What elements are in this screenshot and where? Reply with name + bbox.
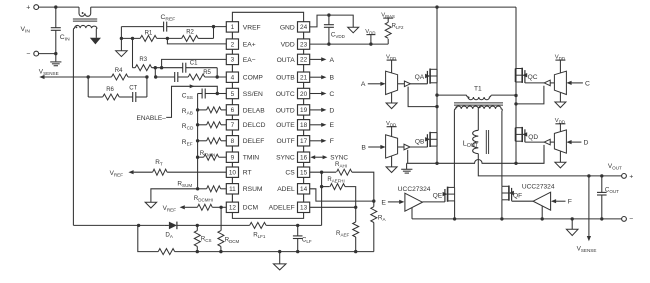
svg-text:D: D bbox=[329, 107, 334, 114]
junction COMP node bbox=[216, 75, 219, 78]
wire OUTB pin arrow bbox=[310, 76, 322, 78]
driver U3 UCC27324 triangle bbox=[533, 192, 551, 210]
svg-text:OUTC: OUTC bbox=[276, 91, 295, 98]
junction SS node bbox=[216, 92, 219, 95]
svg-text:DELCD: DELCD bbox=[243, 122, 266, 129]
wire GND pin24 to ground bbox=[310, 15, 354, 27]
current-sense transformer secondary bbox=[73, 25, 97, 37]
svg-text:F: F bbox=[568, 199, 572, 206]
IC pin box 16 bbox=[298, 152, 310, 162]
wire ENABLE to SS/EN bbox=[166, 86, 217, 117]
junction QE source rail bbox=[453, 217, 456, 220]
net VBIAS bar bbox=[383, 17, 393, 19]
svg-text:R5: R5 bbox=[203, 70, 211, 76]
wire C1 branch down to COMP node bbox=[216, 68, 218, 77]
transformer T1 core bbox=[454, 102, 503, 104]
current-sense transformer CT primary bbox=[79, 7, 91, 16]
svg-text:1: 1 bbox=[231, 24, 235, 31]
svg-text:OUTB: OUTB bbox=[276, 75, 295, 82]
junction RDCM bottom bbox=[219, 250, 222, 253]
transformer T1 primary bbox=[437, 94, 467, 96]
junction COUT top bbox=[600, 174, 603, 177]
svg-text:DELAB: DELAB bbox=[243, 107, 265, 114]
svg-text:C: C bbox=[329, 91, 334, 98]
IC stub pin3-pin4 bbox=[231, 65, 233, 72]
IC pin box 5 bbox=[226, 88, 238, 98]
wire OUTA pin arrow bbox=[310, 58, 322, 60]
svg-text:RT: RT bbox=[243, 170, 252, 177]
junction ADELEF node bbox=[354, 206, 357, 209]
junction T1 primary left bbox=[435, 93, 438, 96]
IC pin box 22 bbox=[298, 54, 310, 64]
svg-text:B: B bbox=[361, 144, 366, 151]
svg-text:T1: T1 bbox=[474, 86, 482, 93]
wire R2 riser bbox=[213, 27, 215, 39]
wire E to driver U2 bbox=[388, 201, 400, 203]
junction QD source bbox=[514, 162, 517, 165]
IC pin box 15 bbox=[298, 167, 310, 177]
wire SS row bbox=[205, 93, 217, 95]
svg-text:−: − bbox=[26, 51, 30, 58]
resistor RDCM bbox=[218, 231, 224, 247]
svg-text:VREF: VREF bbox=[243, 24, 261, 31]
svg-text:CS: CS bbox=[285, 170, 295, 177]
wire OUTD pin arrow bbox=[310, 109, 322, 111]
svg-text:OUTF: OUTF bbox=[276, 138, 294, 145]
junction driver U3 ground bbox=[541, 217, 544, 220]
wire DA row RCS to CS riser bbox=[197, 224, 249, 226]
junction CVDD top bbox=[327, 13, 330, 16]
wire CT branch up to VSENSE row bbox=[146, 77, 148, 97]
junction R6/CT branch riser bbox=[145, 75, 148, 78]
wire RAEFHI to ADELEF node bbox=[345, 187, 356, 208]
wire driver B to QB gate bbox=[410, 146, 427, 148]
svg-text:QF: QF bbox=[513, 193, 522, 200]
svg-text:6: 6 bbox=[231, 107, 235, 114]
IC pin box 19 bbox=[298, 105, 310, 115]
resistor RLF2 bbox=[387, 39, 389, 44]
svg-text:RSUM: RSUM bbox=[243, 186, 263, 193]
IC pin box 14 bbox=[298, 184, 310, 194]
svg-text:8: 8 bbox=[231, 138, 235, 145]
IC stub pin19-pin18 bbox=[303, 115, 305, 120]
IC stub pin22-pin21 bbox=[303, 65, 305, 72]
wire LOUT to Vout+ rail bbox=[478, 154, 621, 176]
svg-text:OUTD: OUTD bbox=[276, 107, 295, 114]
ground solid under CT secondary bbox=[91, 38, 100, 44]
ground under R1 divider bbox=[116, 51, 128, 57]
gate driver D VDD bbox=[559, 124, 561, 132]
IC pin box 21 bbox=[298, 72, 310, 82]
inductor LOUT bbox=[473, 130, 479, 153]
IC stub pin8-pin9 bbox=[231, 146, 233, 152]
svg-text:18: 18 bbox=[300, 122, 308, 129]
wire DCM node down to RDCM bbox=[220, 207, 222, 230]
svg-text:COMP: COMP bbox=[243, 75, 264, 82]
wire ADELEF pin13 row bbox=[310, 206, 356, 208]
svg-text:VDD: VDD bbox=[555, 118, 565, 125]
junction QA phase ref bbox=[435, 105, 438, 108]
IC stub pin23-pin22 bbox=[303, 49, 305, 54]
resistor REF pin8 bbox=[198, 140, 207, 142]
capacitor CREF bbox=[163, 22, 165, 32]
wire SYNC bidirectional arrow bbox=[314, 156, 325, 158]
driver U2 UCC27324 triangle bbox=[405, 193, 423, 211]
capacitor CT bbox=[132, 92, 134, 102]
wire OUTF pin arrow bbox=[310, 140, 322, 142]
wire CREF row to pin1 bbox=[121, 26, 163, 28]
gate driver A ground bbox=[391, 93, 393, 103]
svg-text:16: 16 bbox=[300, 155, 308, 162]
wire driver U3 to QF gate bbox=[512, 200, 533, 202]
wire DA row from CT bbox=[73, 224, 164, 226]
wire driver U2 to QE gate bbox=[422, 201, 445, 203]
junction R3/EA- riser bbox=[160, 66, 163, 69]
mosfet QE bbox=[444, 189, 446, 202]
resistor RT bbox=[153, 169, 167, 175]
svg-text:VDD: VDD bbox=[386, 121, 396, 128]
IC stub pin4-pin5 bbox=[231, 82, 233, 88]
input terminal - (Vin minus) bbox=[34, 51, 39, 56]
IC stub pin2-pin3 bbox=[231, 49, 233, 54]
IC pin box 1 bbox=[226, 22, 238, 32]
svg-text:20: 20 bbox=[300, 91, 308, 98]
resistor RAEFHI bbox=[330, 184, 345, 190]
svg-text:CT: CT bbox=[129, 85, 137, 91]
gate driver B output buffer bbox=[398, 146, 404, 148]
wire output return rail bbox=[412, 218, 622, 220]
capacitor CSS bbox=[201, 89, 203, 99]
junction QF source rail bbox=[500, 217, 503, 220]
resistor R1 bbox=[140, 35, 157, 41]
junction ADEL node bbox=[372, 199, 375, 202]
svg-text:QC: QC bbox=[528, 74, 538, 81]
svg-text:A: A bbox=[361, 81, 366, 88]
svg-text:C: C bbox=[585, 80, 590, 87]
IC U1 top connector bbox=[232, 12, 303, 21]
svg-text:OUTE: OUTE bbox=[276, 122, 295, 129]
wire driver U3 ground bbox=[541, 206, 543, 219]
resistor RAEF bbox=[355, 207, 357, 222]
resistor R4 bbox=[112, 74, 129, 80]
ground under bottom row bbox=[279, 252, 281, 264]
junction ground bus bbox=[196, 108, 199, 111]
svg-text:+: + bbox=[26, 5, 30, 12]
wire DCM row bbox=[185, 206, 198, 208]
wire riser R3 row to VSENSE row bbox=[154, 68, 156, 77]
junction CVDD bottom bbox=[327, 42, 330, 45]
junction R3/comp riser bbox=[154, 66, 157, 69]
net VDD tap bbox=[370, 35, 372, 45]
junction RCS bottom bbox=[196, 250, 199, 253]
transformer T1 secondary bbox=[454, 106, 502, 111]
wire Vsense arrow bbox=[588, 176, 590, 237]
IC stub pin9-pin10 bbox=[231, 162, 233, 167]
wire QE drain from secondary bbox=[453, 111, 455, 188]
junction Vsense tap bbox=[587, 174, 590, 177]
svg-text:EA−: EA− bbox=[243, 57, 256, 64]
svg-text:R1: R1 bbox=[145, 30, 153, 36]
IC pin box 17 bbox=[298, 136, 310, 146]
IC pin box 2 bbox=[226, 39, 238, 49]
wire driver C reference to phase node bbox=[516, 86, 544, 104]
IC pin box 20 bbox=[298, 88, 310, 98]
IC stub pin7-pin8 bbox=[231, 130, 233, 136]
resistor RLF1 bbox=[250, 222, 266, 228]
wire left bridge leg bbox=[436, 7, 438, 163]
wire CT secondary left terminal down to DA row bbox=[72, 30, 74, 225]
wire CS pin15 row bbox=[310, 171, 336, 173]
IC stub pin17-pin16 bbox=[303, 146, 305, 152]
gate driver C ground bbox=[559, 93, 561, 102]
svg-text:VDD: VDD bbox=[365, 29, 375, 36]
resistor RAB bbox=[198, 109, 207, 111]
svg-text:UCC27324: UCC27324 bbox=[522, 183, 555, 190]
net arrow VSENSE bbox=[39, 75, 44, 79]
wire top rail from CT to bridge bbox=[91, 6, 516, 8]
wire QF drain from secondary bbox=[501, 111, 503, 187]
gate driver B trapezoid bbox=[386, 135, 398, 158]
IC stub pin21-pin20 bbox=[303, 82, 305, 88]
wire primary ground rail bbox=[407, 149, 544, 164]
svg-text:19: 19 bbox=[300, 107, 308, 114]
resistor R6 bbox=[103, 94, 120, 100]
svg-text:9: 9 bbox=[231, 155, 235, 162]
junction rail / Cin bbox=[54, 5, 57, 8]
svg-text:E: E bbox=[381, 199, 386, 206]
svg-text:5: 5 bbox=[231, 91, 235, 98]
mosfet QF bbox=[511, 188, 513, 201]
IC U1 bottom connector bbox=[232, 213, 303, 219]
svg-text:QD: QD bbox=[528, 134, 538, 141]
IC stub pin6-pin7 bbox=[231, 115, 233, 120]
IC stub pin20-pin19 bbox=[303, 99, 305, 105]
IC pin box 18 bbox=[298, 120, 310, 130]
ground bars under Cin bbox=[55, 54, 57, 62]
svg-text:A: A bbox=[330, 57, 335, 64]
wire R6 branch down bbox=[87, 77, 89, 97]
resistor R2 bbox=[182, 35, 199, 41]
gate driver D ground bbox=[559, 151, 561, 162]
svg-text:22: 22 bbox=[300, 57, 308, 64]
svg-text:23: 23 bbox=[300, 41, 308, 48]
junction QB source bbox=[435, 162, 438, 165]
svg-text:TMIN: TMIN bbox=[243, 155, 260, 162]
IC stub pin10-pin11 bbox=[231, 177, 233, 183]
svg-text:VDD: VDD bbox=[281, 42, 295, 49]
resistor RTMIN bbox=[198, 156, 204, 158]
wire EA- riser and pin3 row bbox=[162, 59, 227, 67]
junction CREF/R2 riser bbox=[212, 25, 215, 28]
ground bars primary rail bbox=[406, 163, 408, 169]
junction T1 primary right bbox=[514, 94, 517, 97]
net arrow VREF DCM row bbox=[180, 205, 185, 209]
wire R3 riser bbox=[132, 38, 134, 67]
wire RT row bbox=[134, 171, 153, 173]
IC stub pin5-pin6 bbox=[231, 99, 233, 105]
svg-text:D: D bbox=[584, 140, 589, 147]
IC stub pin11-pin12 bbox=[231, 194, 233, 202]
junction ground bus bottom bbox=[196, 187, 199, 190]
IC pin box 23 bbox=[298, 39, 310, 49]
svg-text:UCC27324: UCC27324 bbox=[398, 186, 431, 193]
junction CS/RAEFHI bbox=[320, 185, 323, 188]
IC stub pin24-pin23 bbox=[303, 32, 305, 39]
IC pin box 24 bbox=[298, 22, 310, 32]
resistor RAHI bbox=[337, 169, 352, 175]
wire R6-CT row bbox=[88, 96, 103, 98]
resistor RCD bbox=[198, 124, 207, 126]
svg-text:11: 11 bbox=[229, 186, 236, 193]
junction ground symbol return rail bbox=[571, 217, 574, 220]
junction VDD tap bbox=[369, 42, 372, 45]
wire VDD pin23 row bbox=[310, 43, 389, 45]
junction CLF top bbox=[296, 224, 299, 227]
svg-text:DELEF: DELEF bbox=[243, 138, 265, 145]
wire VREF vertical to ground bbox=[120, 27, 122, 51]
IC pin box 3 bbox=[226, 54, 238, 64]
wire CS vertical down bbox=[321, 172, 323, 225]
svg-text:17: 17 bbox=[300, 138, 308, 145]
junction ground row / ground symbol bbox=[278, 250, 281, 253]
wire OUTE pin arrow bbox=[310, 124, 322, 126]
junction R1 left bbox=[120, 37, 123, 40]
ground under return rail bbox=[571, 219, 573, 229]
svg-text:OUTA: OUTA bbox=[277, 57, 296, 64]
wire ground row bottom bbox=[138, 225, 158, 251]
junction VSENSE/R6 branch bbox=[87, 75, 90, 78]
gate driver A output buffer bbox=[398, 83, 405, 85]
svg-text:E: E bbox=[330, 122, 335, 129]
junction R1-R2 / EA+ tap bbox=[166, 37, 169, 40]
gate driver B VDD bbox=[391, 127, 393, 137]
junction RCS top bbox=[196, 224, 199, 227]
wire driver B reference to ground rail bbox=[407, 150, 409, 164]
wire CSS left to ground bus bbox=[198, 93, 203, 95]
svg-text:ADELEF: ADELEF bbox=[269, 205, 295, 212]
gate driver B ground bbox=[391, 156, 393, 167]
junction DA row / ground branch bbox=[137, 224, 140, 227]
capacitor CIN bbox=[55, 7, 57, 28]
capacitor COUT bbox=[601, 176, 603, 193]
wire F to driver U3 bbox=[556, 200, 566, 202]
junction CS node bbox=[320, 171, 323, 174]
svg-text:10: 10 bbox=[229, 170, 237, 177]
svg-text:3: 3 bbox=[231, 57, 235, 64]
svg-text:C1: C1 bbox=[190, 61, 198, 67]
mosfet QC bbox=[524, 70, 526, 83]
IC stub pin1-pin2 bbox=[231, 32, 233, 39]
svg-text:B: B bbox=[330, 75, 335, 82]
svg-text:RAEFHI: RAEFHI bbox=[327, 177, 344, 184]
svg-text:SS/EN: SS/EN bbox=[243, 91, 263, 98]
svg-text:R2: R2 bbox=[186, 30, 194, 36]
svg-text:24: 24 bbox=[300, 24, 308, 31]
wire RSUM row to ground bbox=[151, 189, 198, 202]
IC pin box 12 bbox=[226, 202, 238, 212]
svg-text:VDD: VDD bbox=[386, 54, 396, 61]
gate driver D trapezoid bbox=[554, 130, 566, 153]
svg-text:4: 4 bbox=[231, 75, 235, 82]
resistor R3 bbox=[135, 65, 152, 71]
gate driver D output buffer bbox=[548, 141, 554, 143]
junction COUT bottom bbox=[600, 217, 603, 220]
IC pin box 13 bbox=[298, 202, 310, 212]
svg-text:21: 21 bbox=[300, 75, 308, 82]
IC pin box 4 bbox=[226, 72, 238, 82]
svg-text:R4: R4 bbox=[115, 68, 123, 74]
ground under RSUM bbox=[145, 202, 157, 208]
resistor RDCMHI bbox=[197, 204, 212, 210]
junction ground bus bbox=[196, 139, 199, 142]
IC stub pin16-pin15 bbox=[303, 162, 305, 167]
svg-text:QA: QA bbox=[415, 74, 425, 81]
capacitor CVDD bbox=[328, 15, 330, 25]
junction ground bus bbox=[196, 156, 199, 159]
wire driver A to QA gate bbox=[410, 83, 427, 85]
svg-text:2: 2 bbox=[231, 41, 235, 48]
wire R1R2 row bbox=[121, 37, 140, 39]
svg-text:13: 13 bbox=[300, 205, 308, 212]
wire R3 row bbox=[133, 67, 136, 69]
svg-text:15: 15 bbox=[300, 170, 308, 177]
wire driver U2 ground bbox=[411, 208, 413, 219]
mosfet QB bbox=[426, 134, 428, 147]
output terminal minus bbox=[622, 217, 627, 222]
IC stub pin14-pin13 bbox=[303, 194, 305, 202]
mosfet QD bbox=[524, 129, 526, 142]
wire driver A reference to phase node bbox=[408, 87, 437, 107]
gate driver C trapezoid bbox=[554, 71, 566, 94]
wire minus terminal to Cin bbox=[39, 53, 56, 55]
output terminal plus bbox=[622, 174, 627, 179]
IC pin box 11 bbox=[226, 184, 238, 194]
wire OUTC pin arrow bbox=[310, 93, 322, 95]
IC pin box 9 bbox=[226, 152, 238, 162]
resistor RSUM bbox=[198, 188, 207, 190]
IC pin box 7 bbox=[226, 120, 238, 130]
IC stub pin15-pin14 bbox=[303, 177, 305, 183]
input terminal + (Vin plus) bbox=[34, 5, 39, 10]
svg-text:R3: R3 bbox=[139, 57, 147, 63]
svg-text:ADEL: ADEL bbox=[277, 186, 295, 193]
resistor RCS bbox=[196, 225, 198, 230]
ground bus vertical bbox=[197, 94, 199, 189]
gate driver A trapezoid bbox=[386, 71, 398, 94]
diode DA bbox=[169, 222, 177, 230]
wire top rail Vin+ to CT primary bbox=[39, 6, 79, 8]
gate driver C VDD bbox=[559, 60, 561, 73]
svg-text:14: 14 bbox=[300, 186, 308, 193]
svg-text:RLF2: RLF2 bbox=[392, 23, 404, 30]
svg-text:7: 7 bbox=[231, 122, 235, 129]
IC pin box 8 bbox=[226, 136, 238, 146]
IC stub pin18-pin17 bbox=[303, 130, 305, 136]
gate driver A VDD bbox=[391, 60, 393, 73]
capacitor CLF bbox=[297, 225, 299, 236]
wire RAHI to ADEL node bbox=[352, 172, 374, 201]
junction CLF bottom bbox=[296, 250, 299, 253]
capacitor on comp row bbox=[174, 72, 176, 82]
wire QE source to return rail bbox=[454, 201, 456, 219]
svg-text:DCM: DCM bbox=[243, 205, 259, 212]
junction rail / QA leg bbox=[435, 5, 438, 8]
svg-text:VBIAS: VBIAS bbox=[381, 12, 395, 19]
gate driver C output buffer bbox=[548, 82, 554, 84]
svg-text:12: 12 bbox=[229, 205, 237, 212]
wire driver D to QD gate bbox=[525, 141, 544, 143]
ground under pin24 bbox=[348, 27, 359, 33]
